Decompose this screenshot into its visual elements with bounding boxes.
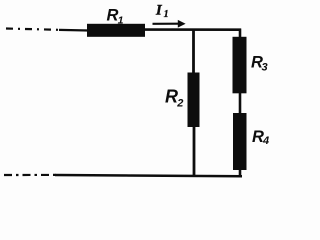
svg-text:I: I [155,3,163,19]
svg-text:1: 1 [118,14,124,26]
resistor R2 [188,73,200,128]
label R1 [107,7,124,27]
wire: left solid lead into R1 [59,29,89,32]
wire: vertical between R3 and R4 [239,93,242,114]
label I1 [155,3,169,21]
svg-text:1: 1 [164,9,169,20]
wire: top horizontal R1 to right corner [144,28,241,31]
wire: right vertical stub from top corner into R3 [239,29,242,39]
resistor R1 [87,24,145,37]
wire: vertical from R2 down to bottom wire [193,127,196,177]
wire: vertical from top wire down to R2 [192,30,195,75]
wire: top-left dash-dot lead [6,29,62,30]
wire: vertical from R4 down to bottom wire [239,170,242,177]
wire: bottom horizontal [55,175,242,176]
label R4 [252,128,269,147]
svg-text:2: 2 [176,98,183,110]
svg-text:4: 4 [262,135,269,147]
svg-text:R: R [165,87,178,107]
svg-text:3: 3 [262,62,268,74]
wire: bottom-left dash-dot lead [4,174,58,176]
resistor R3 [233,37,247,94]
current arrow I1 [153,20,186,28]
resistor R4 [233,113,247,170]
label R3 [251,54,268,74]
label R2 [165,87,183,110]
